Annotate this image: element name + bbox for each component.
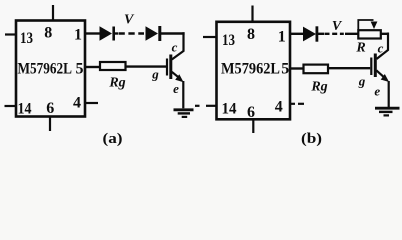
pin 14 lead (b) bbox=[195, 105, 217, 107]
resistor Rg (b) bbox=[304, 65, 329, 74]
wire VD1 cathode bbox=[114, 32, 118, 34]
svg-text:g: g bbox=[151, 67, 159, 82]
resistor Rg (a) bbox=[100, 62, 126, 70]
svg-text:14: 14 bbox=[18, 101, 32, 118]
svg-text:R: R bbox=[355, 40, 365, 55]
transistor Q1 body bar bbox=[169, 55, 172, 80]
dashed wire node V (b) bbox=[325, 33, 344, 35]
wire to resistor R bbox=[345, 33, 389, 35]
transistor Q1 collector lead bbox=[172, 32, 184, 59]
svg-text:Rg: Rg bbox=[310, 80, 327, 95]
transistor Q1 gate bar bbox=[166, 59, 168, 76]
svg-text:M57962L: M57962L bbox=[221, 61, 280, 78]
svg-text:13: 13 bbox=[222, 32, 235, 49]
svg-text:1: 1 bbox=[74, 27, 82, 44]
wire pin5 to Rg (b) bbox=[290, 67, 304, 69]
pin 13 lead bbox=[5, 33, 16, 35]
transistor Q1 emitter lead bbox=[182, 81, 184, 108]
diode VD1 bbox=[100, 26, 114, 41]
svg-text:8: 8 bbox=[44, 25, 52, 42]
transistor Q2 collector lead bbox=[377, 33, 389, 60]
pin 4 lead bbox=[85, 102, 98, 104]
diode VD2 bbox=[146, 26, 160, 41]
wire VD2 to collector bbox=[160, 32, 185, 34]
svg-text:e: e bbox=[173, 81, 179, 96]
wire VD3 cathode bbox=[317, 33, 324, 35]
svg-text:(b): (b) bbox=[301, 131, 322, 147]
pin 8 lead (b) bbox=[251, 6, 253, 22]
diode VD3 bbox=[303, 26, 317, 41]
svg-text:6: 6 bbox=[46, 100, 54, 117]
transistor Q1 emitter arrow bbox=[172, 72, 184, 82]
svg-text:13: 13 bbox=[20, 30, 33, 47]
svg-text:g: g bbox=[358, 74, 366, 89]
svg-text:5: 5 bbox=[76, 61, 84, 78]
svg-text:8: 8 bbox=[247, 26, 255, 43]
svg-text:c: c bbox=[172, 40, 178, 55]
wire pin1 to diode VD3 bbox=[290, 33, 304, 35]
pin 6 lead bbox=[49, 117, 51, 132]
pin 8 lead bbox=[52, 5, 54, 21]
pin 4 lead (b) bbox=[290, 103, 304, 105]
svg-text:14: 14 bbox=[222, 101, 237, 118]
transistor Q2 gate bar bbox=[370, 58, 372, 76]
wire pin5 to Rg (a) bbox=[85, 66, 100, 68]
svg-text:e: e bbox=[374, 84, 380, 99]
pin 6 lead (b) bbox=[252, 119, 254, 133]
svg-text:Rg: Rg bbox=[108, 76, 125, 91]
resistor R wiper arrow bbox=[358, 20, 377, 30]
svg-text:4: 4 bbox=[73, 95, 81, 112]
svg-text:(a): (a) bbox=[103, 131, 123, 147]
transistor Q2 emitter lead bbox=[388, 81, 390, 108]
IC U2 M57962L bbox=[217, 22, 291, 120]
svg-text:6: 6 bbox=[247, 104, 255, 121]
svg-text:M57962L: M57962L bbox=[18, 61, 73, 78]
transistor Q2 body bar bbox=[374, 54, 377, 78]
ground (b) bbox=[375, 108, 400, 115]
svg-text:1: 1 bbox=[278, 29, 286, 46]
svg-text:c: c bbox=[378, 41, 384, 56]
IC U1 M57962L bbox=[16, 21, 85, 117]
ground (a) bbox=[174, 110, 194, 117]
resistor R (adjustable) bbox=[358, 30, 381, 38]
svg-text:5: 5 bbox=[281, 61, 289, 78]
svg-text:4: 4 bbox=[275, 99, 283, 116]
transistor Q2 emitter arrow bbox=[376, 70, 389, 82]
wire Rg to gate (b) bbox=[328, 67, 370, 69]
pin 14 lead bbox=[5, 105, 17, 107]
wire pin1 to diode VD1 bbox=[85, 32, 100, 34]
pin 13 lead (b) bbox=[203, 36, 217, 38]
wire Rg to gate (a) bbox=[126, 65, 167, 67]
dashed wire node V (a) bbox=[119, 32, 145, 34]
